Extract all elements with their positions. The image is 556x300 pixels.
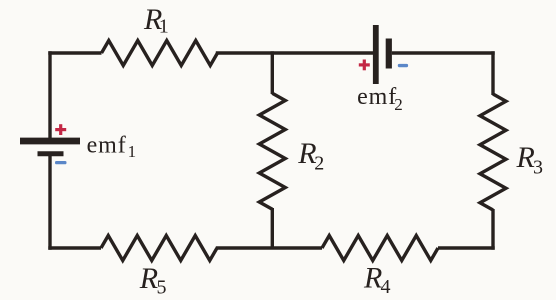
resistor R1 bbox=[102, 41, 218, 66]
wire top-left (node A to R1) bbox=[48, 51, 101, 54]
emf1 minus sign bbox=[55, 161, 67, 164]
resistor R5 bbox=[101, 236, 217, 261]
label R2 bbox=[297, 137, 324, 174]
resistor R3 bbox=[480, 94, 506, 210]
battery emf1 long plate (+) bbox=[20, 138, 80, 145]
svg-text:2: 2 bbox=[394, 95, 403, 114]
svg-text:5: 5 bbox=[157, 277, 167, 299]
svg-text:emf: emf bbox=[357, 84, 397, 110]
battery emf2 short plate (-) bbox=[386, 39, 392, 69]
wire R2 top (from top wire down to R2) bbox=[271, 51, 274, 94]
wire right lower (R3 to node C) bbox=[491, 209, 494, 250]
label R4 bbox=[363, 262, 391, 299]
svg-text:R: R bbox=[516, 141, 535, 174]
wire bottom-right (node C to R4) bbox=[438, 246, 495, 249]
battery emf2 long plate (+) bbox=[373, 25, 379, 84]
svg-text:R: R bbox=[139, 262, 158, 295]
label emf1 bbox=[87, 132, 137, 160]
label R5 bbox=[139, 262, 167, 299]
svg-text:1: 1 bbox=[159, 16, 169, 38]
label emf2 bbox=[357, 84, 403, 114]
svg-text:emf: emf bbox=[87, 132, 127, 158]
svg-text:2: 2 bbox=[314, 152, 324, 174]
wire R2 bottom (R2 down to bottom wire) bbox=[271, 208, 274, 248]
resistor R2 bbox=[259, 93, 285, 209]
wire top-right (emf2 to node B) bbox=[392, 51, 495, 54]
svg-text:1: 1 bbox=[128, 142, 137, 161]
wire left upper (node A down to emf1) bbox=[48, 51, 51, 139]
svg-text:R: R bbox=[363, 262, 382, 295]
resistor R4 bbox=[322, 236, 438, 261]
label R1 bbox=[143, 3, 169, 38]
emf1 plus sign bbox=[55, 124, 66, 135]
wire top-middle (R1 to emf2, junction with R2 at x=272) bbox=[216, 51, 375, 54]
emf2 plus sign bbox=[359, 60, 370, 71]
wire bottom-middle (R5 to R4, junction with R2 at x=272) bbox=[216, 246, 322, 249]
wire bottom-left (node D to R5) bbox=[48, 246, 101, 249]
battery emf1 short plate (-) bbox=[38, 151, 64, 156]
emf2 minus sign bbox=[398, 64, 408, 67]
svg-text:3: 3 bbox=[533, 156, 543, 178]
wire right upper (node B down to R3) bbox=[491, 51, 494, 95]
wire left lower (emf1 down to node D) bbox=[48, 156, 51, 250]
svg-text:4: 4 bbox=[381, 276, 391, 298]
label R3 bbox=[516, 141, 544, 179]
